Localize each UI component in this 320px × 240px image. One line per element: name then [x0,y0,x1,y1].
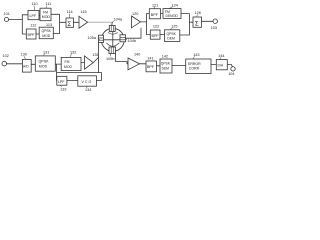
svg-text:QPSK: QPSK [161,62,171,66]
block FM DEM 124 [163,3,181,18]
block LPF 110 [28,2,39,20]
node 101 input terminal [4,12,10,22]
wire row2 to merge2 [180,22,193,35]
svg-text:142: 142 [162,54,168,58]
svg-text:104a: 104a [114,18,123,22]
wire A/D to 131 [31,63,35,65]
block FM MOD 132 [61,50,81,70]
node 103 output terminal [211,19,218,30]
wire LPF110 to FMMOD111 [39,14,40,16]
svg-text:MOD: MOD [64,65,72,69]
svg-text:131: 131 [43,50,49,54]
block BPF 122 [150,24,160,39]
wire amp135 to port W [93,43,98,63]
wire into LPF 133 [56,79,58,81]
svg-text:101: 101 [4,12,10,16]
svg-text:135: 135 [92,53,98,57]
wire split to BPF 122 [147,34,151,36]
svg-text:140: 140 [134,53,140,57]
wire to BPF 112 [22,33,26,35]
svg-text:BPF: BPF [151,13,159,17]
node 104 output terminal [228,67,235,76]
wire to BPF 121 [147,13,150,15]
block VCO 134 [78,76,97,92]
svg-text:121: 121 [152,3,158,7]
wire row2 to merge [53,22,66,33]
summer U114 [66,10,74,28]
block BPF 112 [26,24,36,39]
wire 133 to 134 [67,79,78,81]
block QPSK DEM 125 [165,24,180,41]
svg-text:CORR: CORR [189,67,200,71]
svg-text:Σ: Σ [67,21,71,28]
wire 131 to 132 [55,63,61,65]
block QPSK MOD 131 [35,50,55,71]
svg-text:A/D: A/D [23,65,29,69]
wire row1 to merge2 [181,14,189,35]
wire BPF112 to 113 [36,33,39,35]
svg-text:115: 115 [81,10,87,14]
svg-text:122: 122 [153,24,159,28]
svg-text:MOD: MOD [42,34,50,38]
svg-text:MOD: MOD [42,15,51,19]
amplifier 120 [132,12,141,28]
block BPF 121 [149,3,160,18]
wire 142 to 143 [172,65,186,67]
node 104a label [111,18,123,25]
block FM MOD 111 [40,2,51,21]
svg-text:LPF: LPF [30,14,38,18]
wire 102 to A/D [7,63,23,65]
wire BPF122 to 125 [160,34,165,36]
svg-text:DEMOD: DEMOD [166,14,179,18]
svg-text:BPF: BPF [147,65,155,69]
wire amp140 to BPF 141 [140,63,147,65]
svg-text:113: 113 [46,23,52,27]
amplifier 140 [128,53,140,70]
wire amp120 to split [141,14,147,35]
node 105a label [88,36,101,40]
node 104b label [126,38,136,42]
amplifier 115 [79,10,88,28]
svg-text:126: 126 [195,11,201,15]
wire BPF121 to 124 [161,13,164,15]
svg-text:110: 110 [32,2,38,6]
svg-text:FM: FM [43,10,48,14]
svg-text:BPF: BPF [152,34,160,38]
svg-text:MOD: MOD [39,65,48,69]
svg-text:111: 111 [46,2,52,6]
block D/A 144 [216,54,227,70]
wire to LPF 110 [22,14,28,16]
svg-text:132: 132 [70,50,76,54]
feedback tap wire [57,57,99,80]
svg-text:ERROR: ERROR [188,62,201,66]
wire row1 to merge [51,14,60,33]
svg-text:D/A: D/A [218,63,224,67]
svg-text:103: 103 [211,26,217,30]
block QPSK MOD 113 [39,23,53,39]
wire to amp 115 [74,21,80,23]
port coupler N [109,26,115,32]
summer U126 [193,11,202,28]
svg-text:133: 133 [60,87,66,91]
wire to node 103 [202,20,214,22]
node 105b label [106,53,114,61]
rotary joint circle [101,28,124,51]
svg-text:DEM: DEM [167,36,175,40]
svg-text:114: 114 [67,10,73,14]
wire port E to amp 120 [126,28,142,38]
svg-text:102: 102 [3,54,9,58]
port coupler W [99,35,104,42]
svg-text:105b: 105b [106,57,114,61]
svg-text:FM: FM [65,60,70,64]
wire amp115 to port N (faint) [88,21,113,23]
wire to node 104 [227,65,232,67]
svg-text:QPSK: QPSK [167,32,177,36]
block LPF 133 [57,76,67,91]
svg-text:112: 112 [30,24,36,28]
node 102 input terminal [2,54,9,66]
svg-text:Σ: Σ [195,21,199,28]
block QPSK DEM 142 [160,54,172,73]
block BPF 141 [146,57,157,72]
wire 134 to loop corner [96,73,101,81]
svg-text:DEM: DEM [162,66,170,70]
amplifier 135 [85,53,99,69]
svg-text:QPSK: QPSK [42,29,52,33]
svg-text:134: 134 [85,88,91,92]
svg-text:LPF: LPF [58,80,65,84]
svg-text:104: 104 [228,72,234,76]
svg-text:105a: 105a [88,36,97,40]
wire 132 to amp 135 [81,62,85,64]
wire 143 to D/A 144 [211,64,216,66]
block A/D 130 [21,53,32,73]
svg-text:104b: 104b [128,39,136,43]
svg-text:BPF: BPF [28,33,36,37]
wire from 101 to split [9,15,23,34]
port coupler E [120,35,126,42]
wire BPF141 to 142 [157,65,161,67]
svg-text:QPSK: QPSK [39,60,50,64]
block 143 [186,53,211,74]
svg-text:141: 141 [147,57,153,61]
svg-text:V C O: V C O [82,80,92,84]
svg-text:130: 130 [21,53,27,57]
svg-text:143: 143 [193,53,199,57]
wire port S to amp 140 [116,53,129,64]
svg-text:144: 144 [218,54,224,58]
svg-text:120: 120 [132,12,138,16]
port coupler S [109,47,116,54]
